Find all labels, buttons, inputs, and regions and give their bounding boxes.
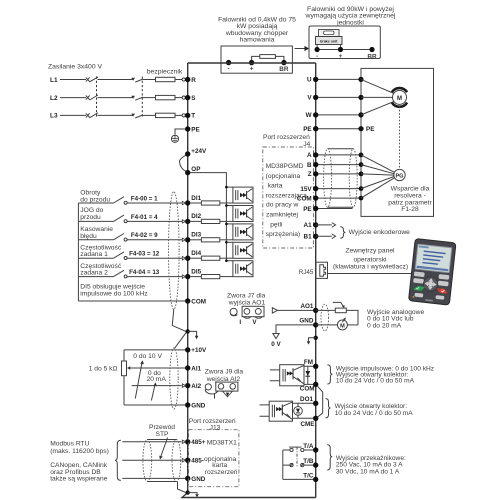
terminal COM (right col): [300, 382, 319, 393]
svg-text:-: -: [228, 66, 230, 73]
svg-text:L3: L3: [50, 113, 58, 120]
svg-text:także są wspierane: także są wspierane: [50, 476, 108, 483]
encoder cable shield ellipses: [324, 149, 358, 208]
port rozszerzen J4 box (dash-dot): [263, 147, 314, 248]
diode DO1: [293, 403, 314, 418]
switch DI2: [114, 215, 128, 223]
ground arrow bottom: [188, 493, 200, 498]
wire GND row (pot bottom): [124, 404, 185, 406]
svg-text:I: I: [239, 319, 241, 326]
wire DI4 row right: [127, 257, 182, 259]
svg-text:S: S: [191, 95, 195, 102]
RJ45 jack: [299, 262, 328, 278]
mechanical link dashed (breaker): [96, 77, 98, 119]
note: internal chopper text: [218, 17, 296, 44]
node encoder junction 5: [359, 196, 364, 201]
note: external brake unit text: [305, 6, 396, 26]
optocoupler DI5: [225, 259, 253, 276]
wire DI2 row right: [127, 220, 182, 222]
svg-text:M: M: [397, 96, 402, 102]
terminal U (right col): [307, 77, 318, 84]
terminal BR (external): [369, 47, 374, 52]
terminal CME: [301, 416, 319, 428]
optocoupler DI2: [225, 204, 253, 221]
note: MD38PGMD card: [266, 163, 308, 238]
wire fuse to terminal T: [175, 114, 182, 116]
terminal AI1 (left col): [185, 365, 202, 372]
svg-text:Modbus RTU: Modbus RTU: [50, 440, 89, 447]
wire encoder row 5: [316, 197, 361, 199]
svg-text:FM: FM: [304, 359, 313, 366]
svg-text:L1: L1: [50, 77, 58, 84]
svg-text:operatorski: operatorski: [353, 257, 387, 264]
wire: brake unit terminals: [317, 45, 372, 50]
terminal T/C: [303, 472, 318, 482]
terminal PE (right col): [303, 206, 318, 213]
mechanical link dashed (contactor): [141, 77, 143, 119]
terminal DO1: [300, 396, 318, 406]
svg-text:485-: 485-: [191, 458, 204, 465]
svg-text:I: I: [214, 393, 216, 400]
svg-text:RJ45: RJ45: [299, 269, 314, 276]
wire encoder row 2: [316, 164, 361, 166]
svg-text:karta: karta: [268, 183, 283, 190]
svg-text:10 do 24 Vdc / 0 do 50 mA: 10 do 24 Vdc / 0 do 50 mA: [335, 410, 414, 417]
svg-text:GND: GND: [191, 402, 205, 409]
wire STP shield drain: [178, 482, 187, 493]
svg-text:AI1: AI1: [191, 365, 201, 372]
svg-text:COM: COM: [297, 195, 312, 202]
svg-text:0 do 10 V: 0 do 10 V: [133, 353, 162, 360]
node encoder junction 1: [359, 153, 364, 158]
note: Wyjscie przekaznikowe: [336, 455, 406, 475]
terminal W (right col): [306, 112, 319, 119]
node V junction: [358, 95, 363, 100]
node U junction: [358, 77, 363, 82]
wire encoder row 3: [316, 173, 361, 175]
wire to PG 1: [361, 155, 394, 172]
contactor contact L3: [131, 114, 143, 118]
connector circle S: [182, 96, 185, 99]
switch DI1: [114, 197, 128, 205]
terminal V (right col): [307, 95, 318, 102]
svg-text:F4-02 = 9: F4-02 = 9: [131, 232, 158, 239]
note: Wyjscie impulsowe: [336, 366, 434, 385]
connector circle R: [182, 78, 185, 81]
svg-text:PE: PE: [191, 126, 199, 133]
encoder output arrows A1 B1: [316, 223, 336, 228]
svg-text:F4-04 = 13: F4-04 = 13: [129, 269, 160, 276]
DI function table frame: [77, 203, 79, 301]
terminal 485- (left col): [182, 458, 204, 465]
note: MD38TX1 card: [204, 440, 238, 477]
svg-text:DO1: DO1: [300, 396, 313, 403]
terminal 485+ (left col): [182, 439, 206, 446]
terminal AO1: [300, 303, 318, 313]
wire DI1 row right: [127, 202, 182, 204]
terminal A1 (right col): [304, 222, 319, 229]
ground symbol at PE input: [171, 129, 185, 142]
terminal A (right col): [307, 152, 318, 159]
svg-text:-: -: [316, 53, 318, 60]
brace encoder output: [340, 227, 345, 238]
wire L3 mid: [98, 114, 134, 116]
cable shield ellipse (AI wires): [170, 348, 178, 409]
wire fuse to terminal R: [175, 79, 182, 81]
arrow J7 to AO1: [272, 308, 313, 313]
0V reference symbol: [271, 333, 281, 348]
motor M1: [392, 88, 407, 107]
terminal GND (AO): [299, 317, 318, 327]
svg-text:T/A: T/A: [303, 443, 314, 450]
svg-text:MD38TX1: MD38TX1: [207, 440, 237, 447]
terminal +24V (left col): [185, 148, 207, 157]
terminal GND (left col): [185, 402, 206, 409]
svg-text:wyjścia AO1: wyjścia AO1: [228, 299, 266, 306]
node shield junction (right) + arrow: [307, 336, 318, 345]
note: Port rozszerzen J4: [263, 134, 311, 148]
note: Zewnetrzny panel operatorski: [333, 248, 408, 271]
svg-text:(maks. 116200 bps): (maks. 116200 bps): [50, 448, 109, 455]
node shield junction (left): [186, 329, 190, 333]
svg-text:DI3: DI3: [191, 232, 201, 239]
svg-text:CME: CME: [301, 421, 315, 428]
optocoupler DI1: [225, 186, 253, 203]
svg-text:DI5: DI5: [191, 268, 201, 275]
svg-text:Port rozszerzeń: Port rozszerzeń: [263, 134, 310, 141]
wire L2 to fuse: [143, 97, 156, 99]
wire encoder row 1: [316, 154, 361, 156]
svg-text:hamowania: hamowania: [240, 36, 275, 43]
svg-text:BR: BR: [367, 53, 377, 60]
svg-text:BR: BR: [279, 66, 289, 73]
svg-text:L2: L2: [50, 95, 58, 102]
terminal COM (right col): [297, 195, 319, 202]
svg-text:Zwora J9 dla: Zwora J9 dla: [205, 368, 244, 375]
svg-text:F4-00 = 1: F4-00 = 1: [131, 195, 158, 202]
svg-text:PE: PE: [303, 206, 311, 213]
terminal PE (left col): [185, 126, 200, 133]
resistor DI3 input: [190, 238, 233, 242]
wire W row: [316, 114, 361, 116]
note: Modbus text block: [50, 440, 109, 482]
wire GND row (485): [122, 477, 185, 479]
wire AO1 out: [316, 309, 336, 311]
svg-text:zamkniętej: zamkniętej: [266, 212, 298, 219]
terminal T (left col): [185, 113, 195, 120]
wires to motor: [361, 79, 394, 115]
note: Wsparcie dla resolvera: [388, 186, 432, 213]
switch DI5: [114, 270, 128, 278]
AO cable shield ellipse: [321, 304, 329, 331]
svg-text:do pracy w: do pracy w: [266, 202, 299, 209]
svg-text:PE: PE: [303, 126, 311, 133]
svg-text:DI1: DI1: [191, 195, 201, 202]
svg-text:Z: Z: [308, 171, 312, 178]
svg-text:przodu: przodu: [80, 214, 101, 221]
svg-text:T/B: T/B: [303, 458, 314, 465]
switch DI4: [114, 252, 128, 260]
svg-text:PG: PG: [395, 173, 403, 179]
jumper J9: [205, 382, 238, 400]
svg-text:AO1: AO1: [300, 303, 313, 310]
svg-text:PE: PE: [366, 126, 374, 133]
wire encoder row 4: [316, 188, 361, 190]
brace FM: [327, 365, 332, 384]
inverter main box outline: [182, 63, 316, 498]
resistor DI1 input: [190, 201, 233, 205]
wire L2 mid: [98, 97, 134, 99]
internal chopper box: [221, 46, 292, 73]
terminal DI4 (left col): [182, 250, 201, 261]
wire to PG 2: [361, 165, 394, 174]
leader arrow STP: [159, 438, 167, 460]
svg-text:J13: J13: [210, 424, 221, 431]
fuse L3: [156, 113, 176, 117]
svg-text:zadana 2: zadana 2: [80, 270, 108, 277]
brace DO1: [326, 399, 331, 418]
node encoder junction 4: [359, 186, 364, 191]
svg-text:A: A: [307, 152, 312, 159]
wire shield drain to junction: [172, 309, 186, 331]
svg-text:10 do 24 Vdc / 0 do 50 mA: 10 do 24 Vdc / 0 do 50 mA: [336, 377, 415, 384]
svg-text:STP: STP: [155, 431, 169, 438]
terminal AI2 (left col): [182, 383, 201, 390]
breaker contact L2: [86, 95, 98, 100]
wire DI1 row left: [78, 202, 113, 204]
note: Port rozszerzen J13: [189, 418, 236, 431]
terminal COM (left col): [185, 298, 206, 305]
resistor DI4 input: [190, 256, 233, 260]
wire 485- row: [122, 459, 181, 461]
svg-text:do przodu: do przodu: [80, 196, 110, 203]
wire DI4 row left: [78, 257, 113, 259]
svg-text:B: B: [307, 162, 312, 169]
note: 0 do 20 mA: [147, 370, 167, 383]
wire COM-CME link: [318, 386, 323, 417]
svg-text:Zasilanie 3x400 V: Zasilanie 3x400 V: [48, 64, 102, 71]
svg-text:MD38PGMD: MD38PGMD: [266, 163, 304, 170]
wire to PG 4: [361, 176, 394, 188]
port rozszerzen J13 box (dash-dot): [189, 430, 239, 487]
svg-text:(opcjonalna: (opcjonalna: [266, 173, 301, 180]
terminal + (external): [338, 47, 343, 52]
ground arrow at junction: [188, 331, 199, 339]
resistor DI2 input: [190, 219, 233, 223]
wire V row: [316, 96, 361, 98]
svg-text:GND: GND: [191, 476, 205, 483]
wire COM row (table bottom): [78, 300, 185, 302]
optocoupler DI3: [225, 223, 253, 240]
encoder PG: [394, 169, 405, 180]
svg-text:COM: COM: [191, 298, 206, 305]
terminal 15V (right col): [300, 186, 318, 193]
wire PE row (motor): [316, 128, 361, 130]
terminal OP (left col): [185, 166, 200, 175]
optocoupler DI4: [225, 241, 253, 258]
wire L3 to fuse: [143, 114, 156, 116]
jumper J7: [230, 306, 264, 326]
svg-text:0 V: 0 V: [271, 341, 281, 348]
wire DI5 row left: [78, 276, 113, 278]
node bottom junction: [186, 490, 190, 494]
svg-text:pętli: pętli: [270, 222, 283, 229]
svg-text:20 mA: 20 mA: [147, 376, 167, 383]
wire PE row (encoder shield): [316, 208, 353, 210]
svg-text:M: M: [340, 324, 345, 330]
trim potentiometer AO load: [333, 302, 358, 325]
wire L3 input: [60, 114, 86, 116]
flywheel diode FM: [304, 366, 313, 384]
note: Przewod STP: [149, 424, 175, 438]
svg-text:B1: B1: [304, 234, 313, 241]
wire DI3 row right: [127, 239, 182, 241]
dashed shaft link motor-PG: [399, 107, 401, 170]
terminal T/A: [303, 443, 318, 453]
connector circle T: [182, 114, 185, 117]
wire DI3 row left: [78, 239, 113, 241]
resistor DI5 input: [190, 275, 233, 279]
wire 485+ row: [122, 441, 181, 443]
relay contact assembly: [283, 447, 313, 480]
node encoder junction 3: [359, 172, 364, 177]
wire DI5 row right: [127, 276, 182, 278]
svg-text:COM: COM: [300, 386, 315, 393]
wire RJ45 to panel: [328, 273, 416, 275]
svg-text:+: +: [250, 66, 254, 73]
svg-text:CANopen, CANlink: CANopen, CANlink: [50, 462, 108, 469]
terminal S (left col): [185, 95, 196, 102]
terminal T/B: [303, 458, 318, 468]
svg-text:+: +: [339, 53, 343, 60]
fuse L1: [156, 77, 176, 81]
note: Zwora J9: [205, 368, 244, 383]
arrow to external unit: [295, 46, 310, 51]
contactor contact L2: [131, 96, 143, 100]
wire OP to opto bus: [190, 173, 226, 261]
svg-text:bezpiecznik: bezpiecznik: [147, 69, 183, 76]
wire AI shield drain: [174, 332, 186, 348]
svg-text:(klawiatura i wyświetlacz): (klawiatura i wyświetlacz): [333, 264, 408, 271]
terminal DI2 (left col): [182, 213, 201, 224]
note: Obroty do przodu: [80, 190, 148, 298]
terminal GND (left col): [185, 476, 206, 483]
wire to PG 3: [361, 174, 394, 175]
svg-text:F4-01 = 4: F4-01 = 4: [131, 214, 158, 221]
terminal - (external): [315, 47, 320, 52]
svg-text:485+: 485+: [191, 439, 206, 446]
cable shield ellipse (DI wires): [169, 192, 180, 310]
wire U row: [316, 78, 361, 80]
wire +10V row: [124, 349, 185, 351]
wire fuse to terminal S: [175, 97, 182, 99]
svg-text:15V: 15V: [300, 186, 312, 193]
terminal DI3 (left col): [182, 232, 201, 243]
terminal R (left col): [185, 77, 196, 84]
svg-text:30 Vdc, 10 mA do 1 A: 30 Vdc, 10 mA do 1 A: [336, 468, 400, 475]
terminal - (top edge): [226, 60, 231, 65]
wire GND to 0V: [276, 325, 313, 333]
node PE junction: [358, 126, 374, 133]
node W junction: [358, 112, 363, 117]
svg-text:1 do 5 kΩ: 1 do 5 kΩ: [89, 366, 118, 373]
svg-text:W: W: [306, 112, 312, 119]
svg-text:rozszerzeń: rozszerzeń: [205, 469, 238, 476]
terminal DI5 (left col): [182, 268, 201, 279]
svg-text:jednostki: jednostki: [336, 19, 364, 26]
terminal +10V (left col): [185, 347, 207, 354]
resolver support box: [361, 68, 434, 216]
breaker contact L1: [86, 77, 98, 82]
terminal B (right col): [307, 162, 318, 169]
svg-text:+10V: +10V: [191, 347, 207, 354]
node encoder junction 2: [359, 162, 364, 167]
brace relay: [327, 445, 332, 470]
terminal + (top edge): [249, 60, 254, 65]
wire AI2 row: [132, 385, 182, 387]
wire L1 input: [60, 79, 86, 81]
svg-text:zadana 1: zadana 1: [80, 251, 108, 258]
wire DI2 row left: [78, 220, 113, 222]
svg-text:F4-03 = 12: F4-03 = 12: [129, 251, 160, 258]
wiper arrow AI1: [127, 366, 185, 369]
STP cable shield ellipses: [143, 440, 181, 482]
brace RS485: [115, 440, 121, 480]
svg-text:T/C: T/C: [303, 472, 314, 479]
meter (analog output load): [337, 317, 358, 330]
svg-text:T: T: [191, 113, 195, 120]
svg-text:A1: A1: [304, 222, 313, 229]
wire L1 mid: [98, 79, 134, 81]
optocoupler FM: [270, 365, 304, 386]
external brake unit box: [309, 26, 380, 59]
breaker contact L3: [86, 113, 98, 118]
svg-text:0 do 20 mA: 0 do 20 mA: [367, 322, 402, 329]
terminal FM: [304, 359, 318, 369]
svg-text:brake unit: brake unit: [320, 40, 338, 44]
wire L2 input: [60, 97, 86, 99]
terminal BR (top edge): [281, 60, 286, 65]
svg-text:błędu: błędu: [80, 233, 97, 240]
svg-text:DI4: DI4: [191, 250, 201, 257]
jumper link +24V to OP: [179, 155, 185, 171]
svg-text:Wyjście enkoderowe: Wyjście enkoderowe: [349, 229, 411, 236]
terminal PE (right col): [303, 126, 318, 133]
svg-text:impulsowe do 100 kHz: impulsowe do 100 kHz: [80, 290, 148, 297]
wire to PG 5: [361, 178, 394, 198]
svg-text:GND: GND: [299, 317, 313, 324]
leader arrow 20mA: [151, 382, 157, 400]
svg-text:DI2: DI2: [191, 213, 201, 220]
wire GND out: [316, 324, 338, 326]
terminal B1 (right col): [304, 234, 319, 241]
svg-text:+24V: +24V: [191, 148, 207, 155]
svg-text:AI2: AI2: [191, 383, 201, 390]
wire L1 to fuse: [143, 79, 156, 81]
optocoupler DO1: [260, 401, 293, 421]
potentiometer 1 do 5 kOhm: [122, 350, 127, 405]
switch DI3: [114, 234, 128, 242]
operator keypad panel: [408, 239, 456, 306]
svg-text:F1-28: F1-28: [401, 206, 419, 213]
terminal Z (right col): [308, 171, 319, 178]
svg-text:R: R: [191, 77, 196, 84]
svg-text:J4: J4: [303, 141, 310, 148]
contactor contact L1: [131, 78, 143, 82]
svg-text:sprzężenia): sprzężenia): [266, 231, 301, 238]
note: Wyjscie analogowe: [367, 309, 424, 329]
terminal DI1 (left col): [182, 195, 201, 206]
